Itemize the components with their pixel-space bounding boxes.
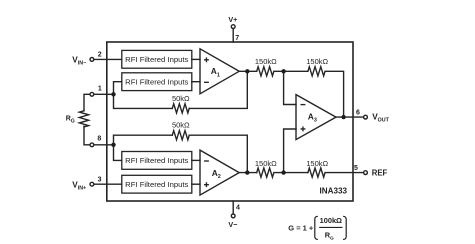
junction node pin1 [111, 92, 115, 96]
wire 150k R5 to 150k R6 [275, 172, 308, 174]
A2 minus sign [204, 160, 209, 162]
svg-text:G = 1 +: G = 1 + [288, 224, 314, 233]
svg-text:150kΩ: 150kΩ [255, 57, 277, 66]
svg-text:RFI Filtered Inputs: RFI Filtered Inputs [125, 77, 188, 86]
equation fraction bar [319, 226, 342, 228]
wire pin1 to node [94, 93, 114, 95]
wire RFI3 out to A2 - [192, 159, 200, 161]
RFI box 1 [122, 50, 192, 68]
svg-text:150kΩ: 150kΩ [306, 159, 328, 168]
svg-text:5: 5 [354, 165, 358, 172]
svg-text:50kΩ: 50kΩ [172, 94, 190, 103]
A1 plus sign [204, 57, 209, 62]
terminal pin 2 [90, 58, 94, 62]
svg-text:4: 4 [236, 205, 240, 212]
wire 150k R3 to 150k R4 [275, 70, 308, 72]
resistor 50k R2 [172, 131, 189, 140]
svg-text:2: 2 [98, 51, 102, 58]
wire node1 down to 50k R1 [114, 94, 173, 108]
wire node to A3 + in [284, 129, 296, 173]
resistor 150k R4 [308, 67, 325, 76]
wire A3 out to pin 6 [336, 116, 364, 118]
terminal pin 6 [364, 115, 368, 119]
wire node8 down to RFI3 in [114, 145, 122, 161]
svg-text:7: 7 [235, 35, 239, 42]
svg-text:3: 3 [98, 176, 102, 183]
junction A1 output [245, 69, 249, 73]
wire pin2 to RFI1 [94, 58, 122, 60]
wire RFI2 out to A1 - [192, 81, 200, 83]
wire 150k R6 to REF pin 5 [326, 172, 363, 174]
wire 50k R2 to A2 out [189, 135, 247, 172]
svg-text:RFI Filtered Inputs: RFI Filtered Inputs [125, 180, 188, 189]
svg-text:6: 6 [356, 109, 360, 116]
wire RG from pin1 [84, 94, 90, 111]
wire node1 up to RFI2 in [114, 82, 122, 95]
A3 minus sign [301, 104, 306, 106]
svg-text:V+: V+ [228, 15, 237, 24]
svg-text:V−: V− [228, 220, 237, 229]
op-amp A2 [200, 150, 239, 195]
junction node pin8 [111, 143, 115, 147]
resistor 150k R6 [308, 168, 325, 177]
RFI box 3 [122, 152, 192, 170]
wire 50k R1 to A1 out [189, 71, 247, 108]
resistor 150k R5 [257, 168, 274, 177]
wire A2 out to 150k R5 [239, 172, 257, 174]
terminal pin 5 [364, 171, 368, 175]
svg-text:REF: REF [372, 169, 388, 178]
terminal pin 8 [90, 143, 94, 147]
A3 plus sign [301, 126, 306, 131]
wire pin7 V+ [232, 29, 234, 42]
op-amp A1 [200, 49, 239, 94]
resistor 150k R3 [257, 67, 274, 76]
wire RG to pin8 [84, 126, 90, 145]
wire RFI4 out to A2 + [192, 183, 200, 185]
svg-text:100kΩ: 100kΩ [320, 216, 342, 225]
resistor RG [79, 111, 88, 127]
junction A3 output [341, 115, 345, 119]
svg-text:150kΩ: 150kΩ [255, 159, 277, 168]
RFI box 4 [122, 175, 192, 193]
svg-text:50kΩ: 50kΩ [172, 121, 190, 130]
resistor 50k R1 [172, 104, 189, 113]
wire pin3 to RFI4 [94, 183, 122, 185]
junction A3 + node [281, 170, 285, 174]
svg-text:150kΩ: 150kΩ [306, 57, 328, 66]
terminal pin 3 [90, 182, 94, 186]
wire node8 up to 50k R2 [114, 135, 173, 145]
wire pin4 V- [232, 201, 234, 214]
op-amp A3 [296, 95, 336, 140]
svg-text:INA333: INA333 [320, 187, 348, 196]
wire A1 out to 150k R3 [239, 70, 257, 72]
svg-text:1: 1 [98, 86, 102, 93]
RFI box 2 [122, 73, 192, 91]
wire 150k R4 feedback to A3 out [326, 71, 344, 117]
A2 plus sign [204, 182, 209, 187]
equation right bracket [343, 216, 346, 239]
svg-text:8: 8 [97, 136, 101, 143]
IC boundary box [107, 42, 353, 201]
wire node to A3 - in [284, 71, 296, 104]
terminal pin 4 [231, 214, 235, 218]
wire RFI1 out to A1 + [192, 58, 200, 60]
A1 minus sign [204, 81, 209, 83]
equation left bracket [315, 216, 318, 239]
svg-text:RFI Filtered Inputs: RFI Filtered Inputs [125, 156, 188, 165]
terminal pin 7 [231, 25, 235, 29]
junction A2 output [245, 170, 249, 174]
junction A3 - node [281, 69, 285, 73]
terminal pin 1 [90, 92, 94, 96]
wire pin8 to node [94, 144, 114, 146]
svg-text:RFI Filtered Inputs: RFI Filtered Inputs [125, 55, 188, 64]
